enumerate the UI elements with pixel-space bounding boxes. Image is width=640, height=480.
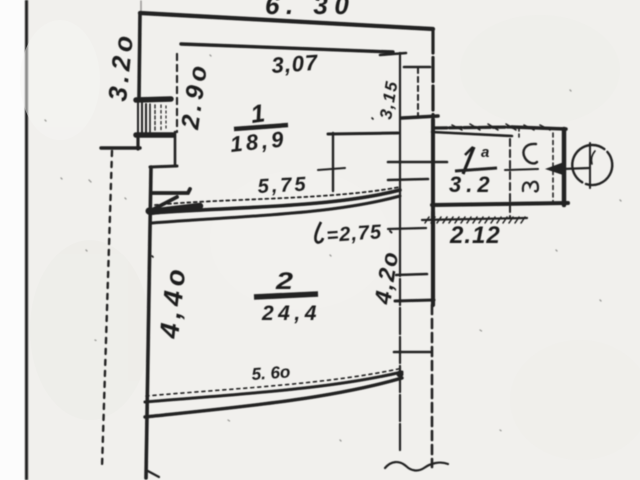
svg-text:5. 6o: 5. 6o: [251, 362, 291, 384]
svg-text:=2,75: =2,75: [326, 221, 383, 247]
svg-text:a: a: [481, 144, 489, 161]
svg-text:6. 30: 6. 30: [265, 0, 355, 20]
svg-text:3.2: 3.2: [449, 172, 495, 197]
svg-text:3,07: 3,07: [271, 50, 320, 78]
svg-text:24,4: 24,4: [261, 302, 321, 325]
svg-text:2.12: 2.12: [449, 222, 501, 249]
svg-text:2: 2: [275, 268, 294, 295]
svg-text:5,75: 5,75: [257, 173, 309, 198]
